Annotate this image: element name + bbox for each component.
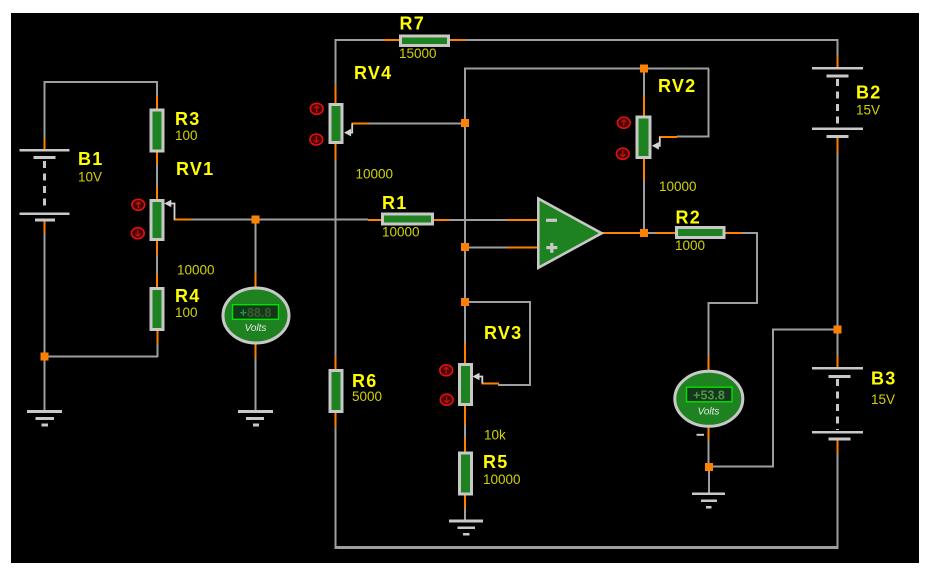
svg-text:100: 100 — [175, 128, 198, 143]
svg-text:RV4: RV4 — [354, 63, 392, 83]
svg-text:10000: 10000 — [382, 225, 420, 240]
svg-text:10000: 10000 — [356, 167, 394, 182]
svg-text:RV2: RV2 — [658, 76, 696, 96]
svg-text:R2: R2 — [676, 208, 701, 228]
svg-text:B1: B1 — [78, 149, 103, 169]
svg-text:R6: R6 — [352, 371, 377, 391]
svg-text:100: 100 — [175, 305, 198, 320]
svg-text:R3: R3 — [175, 109, 200, 129]
svg-text:+53.8: +53.8 — [693, 388, 725, 402]
svg-text:5000: 5000 — [352, 389, 382, 404]
svg-text:10000: 10000 — [483, 472, 521, 487]
svg-text:15000: 15000 — [399, 46, 437, 61]
svg-text:B3: B3 — [871, 369, 896, 389]
svg-text:10000: 10000 — [177, 263, 215, 278]
svg-text:R5: R5 — [483, 452, 508, 472]
svg-text:Volts: Volts — [245, 323, 267, 334]
svg-text:15V: 15V — [856, 103, 880, 118]
svg-text:10000: 10000 — [659, 179, 697, 194]
svg-text:B2: B2 — [856, 83, 881, 103]
svg-text:R4: R4 — [175, 286, 200, 306]
svg-text:R7: R7 — [400, 14, 425, 34]
svg-text:+88.8: +88.8 — [240, 306, 272, 320]
svg-text:Volts: Volts — [698, 407, 720, 418]
svg-text:10k: 10k — [484, 428, 506, 443]
svg-text:15V: 15V — [871, 392, 895, 407]
svg-text:RV1: RV1 — [176, 159, 214, 179]
svg-text:RV3: RV3 — [484, 323, 522, 343]
svg-text:10V: 10V — [78, 170, 102, 185]
svg-text:1000: 1000 — [675, 238, 705, 253]
svg-text:R1: R1 — [382, 193, 407, 213]
